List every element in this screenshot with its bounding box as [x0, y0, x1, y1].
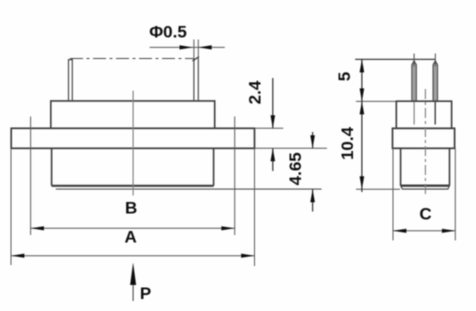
svg-text:5: 5 — [335, 72, 354, 81]
side view: left pin — [412, 61, 416, 101]
side view: right pin centre tick — [434, 54, 436, 67]
dimension 2.4: lower segment + arrow — [272, 148, 274, 171]
side view: flange — [393, 128, 455, 148]
5 top arrow — [360, 59, 365, 72]
side view: lower body — [401, 148, 450, 185]
front view: flange outline — [11, 128, 254, 148]
flange bottom extension (right) — [255, 147, 328, 149]
A extension lines — [11, 148, 255, 266]
dimension 2.4: upper segment + arrow — [272, 78, 274, 128]
front view: left pin — [69, 60, 73, 101]
C extension lines — [393, 148, 455, 240]
dimension C line — [393, 230, 455, 232]
phi0.5 left arrow — [180, 45, 193, 49]
B extension lines — [31, 117, 235, 236]
side view: bottom inner line with feet — [401, 186, 450, 189]
5 bottom arrow — [360, 88, 365, 101]
dimension 4.65: lower segment + arrow — [312, 189, 314, 211]
5 / 10.4 top extension already the pin line; middle extension line — [356, 100, 396, 102]
front view: upper body — [51, 101, 215, 128]
side view: right pin — [433, 61, 437, 101]
10.4 top arrow — [360, 101, 365, 114]
svg-text:C: C — [419, 204, 431, 223]
dimension phi0.5: dim line — [150, 46, 225, 48]
svg-text:A: A — [124, 228, 136, 247]
dimension 4.65: upper segment + arrow — [312, 132, 314, 148]
side view: left pin centre tick — [413, 54, 415, 67]
phi0.5 extension lines up from right pin — [194, 40, 198, 59]
side view: pins inside body — [413, 101, 415, 125]
bottom extension line for 10.4 — [356, 188, 400, 190]
dimension A line — [11, 255, 255, 257]
front view: lower body — [52, 148, 214, 186]
side view centre line (dash-dot) — [424, 89, 426, 195]
svg-text:2.4: 2.4 — [246, 80, 265, 104]
side view: upper body — [396, 101, 451, 128]
svg-text:P: P — [140, 284, 151, 303]
side view: pin top reference line — [355, 58, 435, 60]
svg-text:4.65: 4.65 — [286, 152, 305, 185]
front view: bottom second line + extension to 4.65 — [56, 188, 322, 190]
pin-top dash-dot line — [70, 58, 194, 60]
svg-text:Φ0.5: Φ0.5 — [149, 23, 187, 42]
front view: right pin — [194, 59, 198, 101]
P actuation arrow — [132, 268, 134, 301]
dimension B line — [31, 227, 235, 229]
flange top extension (right) — [255, 127, 284, 129]
10.4 bottom arrow — [360, 176, 365, 189]
phi0.5 right arrow — [198, 45, 211, 49]
svg-text:B: B — [125, 199, 137, 218]
svg-text:10.4: 10.4 — [338, 126, 357, 160]
break squiggle at right pin — [193, 57, 200, 61]
front view centre line — [132, 91, 134, 196]
dimension line for 5 and 10.4 — [361, 59, 363, 192]
